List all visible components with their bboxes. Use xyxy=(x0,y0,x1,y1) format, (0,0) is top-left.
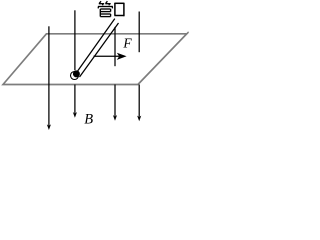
arrowhead line 3 xyxy=(113,115,117,121)
label 管口 : hand drawn strokes xyxy=(98,1,113,16)
tube lower-right line xyxy=(80,23,119,77)
tube upper-left line xyxy=(76,19,115,73)
wire: field line 3 lower segment xyxy=(114,85,116,117)
field line 4 (x=139.2) xyxy=(138,12,140,53)
top-right corner overshoot tick xyxy=(186,32,188,35)
field line 1 (x=48.9) xyxy=(48,26,50,125)
arrowhead line 4 xyxy=(137,116,141,122)
ball xyxy=(73,70,80,77)
管 lower block xyxy=(99,9,101,17)
wire: field line 4 lower segment xyxy=(138,85,140,117)
force arrow F shaft xyxy=(94,55,120,57)
svg-text:B: B xyxy=(84,112,93,128)
label 口 xyxy=(114,3,124,16)
svg-text:F: F xyxy=(122,35,132,50)
管 bamboo radical right xyxy=(106,1,108,3)
arrowhead line 2 xyxy=(73,112,77,118)
tube mouth circle xyxy=(71,72,79,80)
wire: field line 2 lower segment xyxy=(74,85,76,114)
field line 2 (x=75.1) xyxy=(74,10,76,70)
管 bamboo radical left xyxy=(99,1,101,3)
inclined plane parallelogram xyxy=(3,34,187,85)
force arrow F head xyxy=(117,53,127,60)
field line 3 (x=115) xyxy=(114,27,116,66)
arrowhead line 1 xyxy=(47,124,51,130)
管 roof xyxy=(98,6,113,8)
